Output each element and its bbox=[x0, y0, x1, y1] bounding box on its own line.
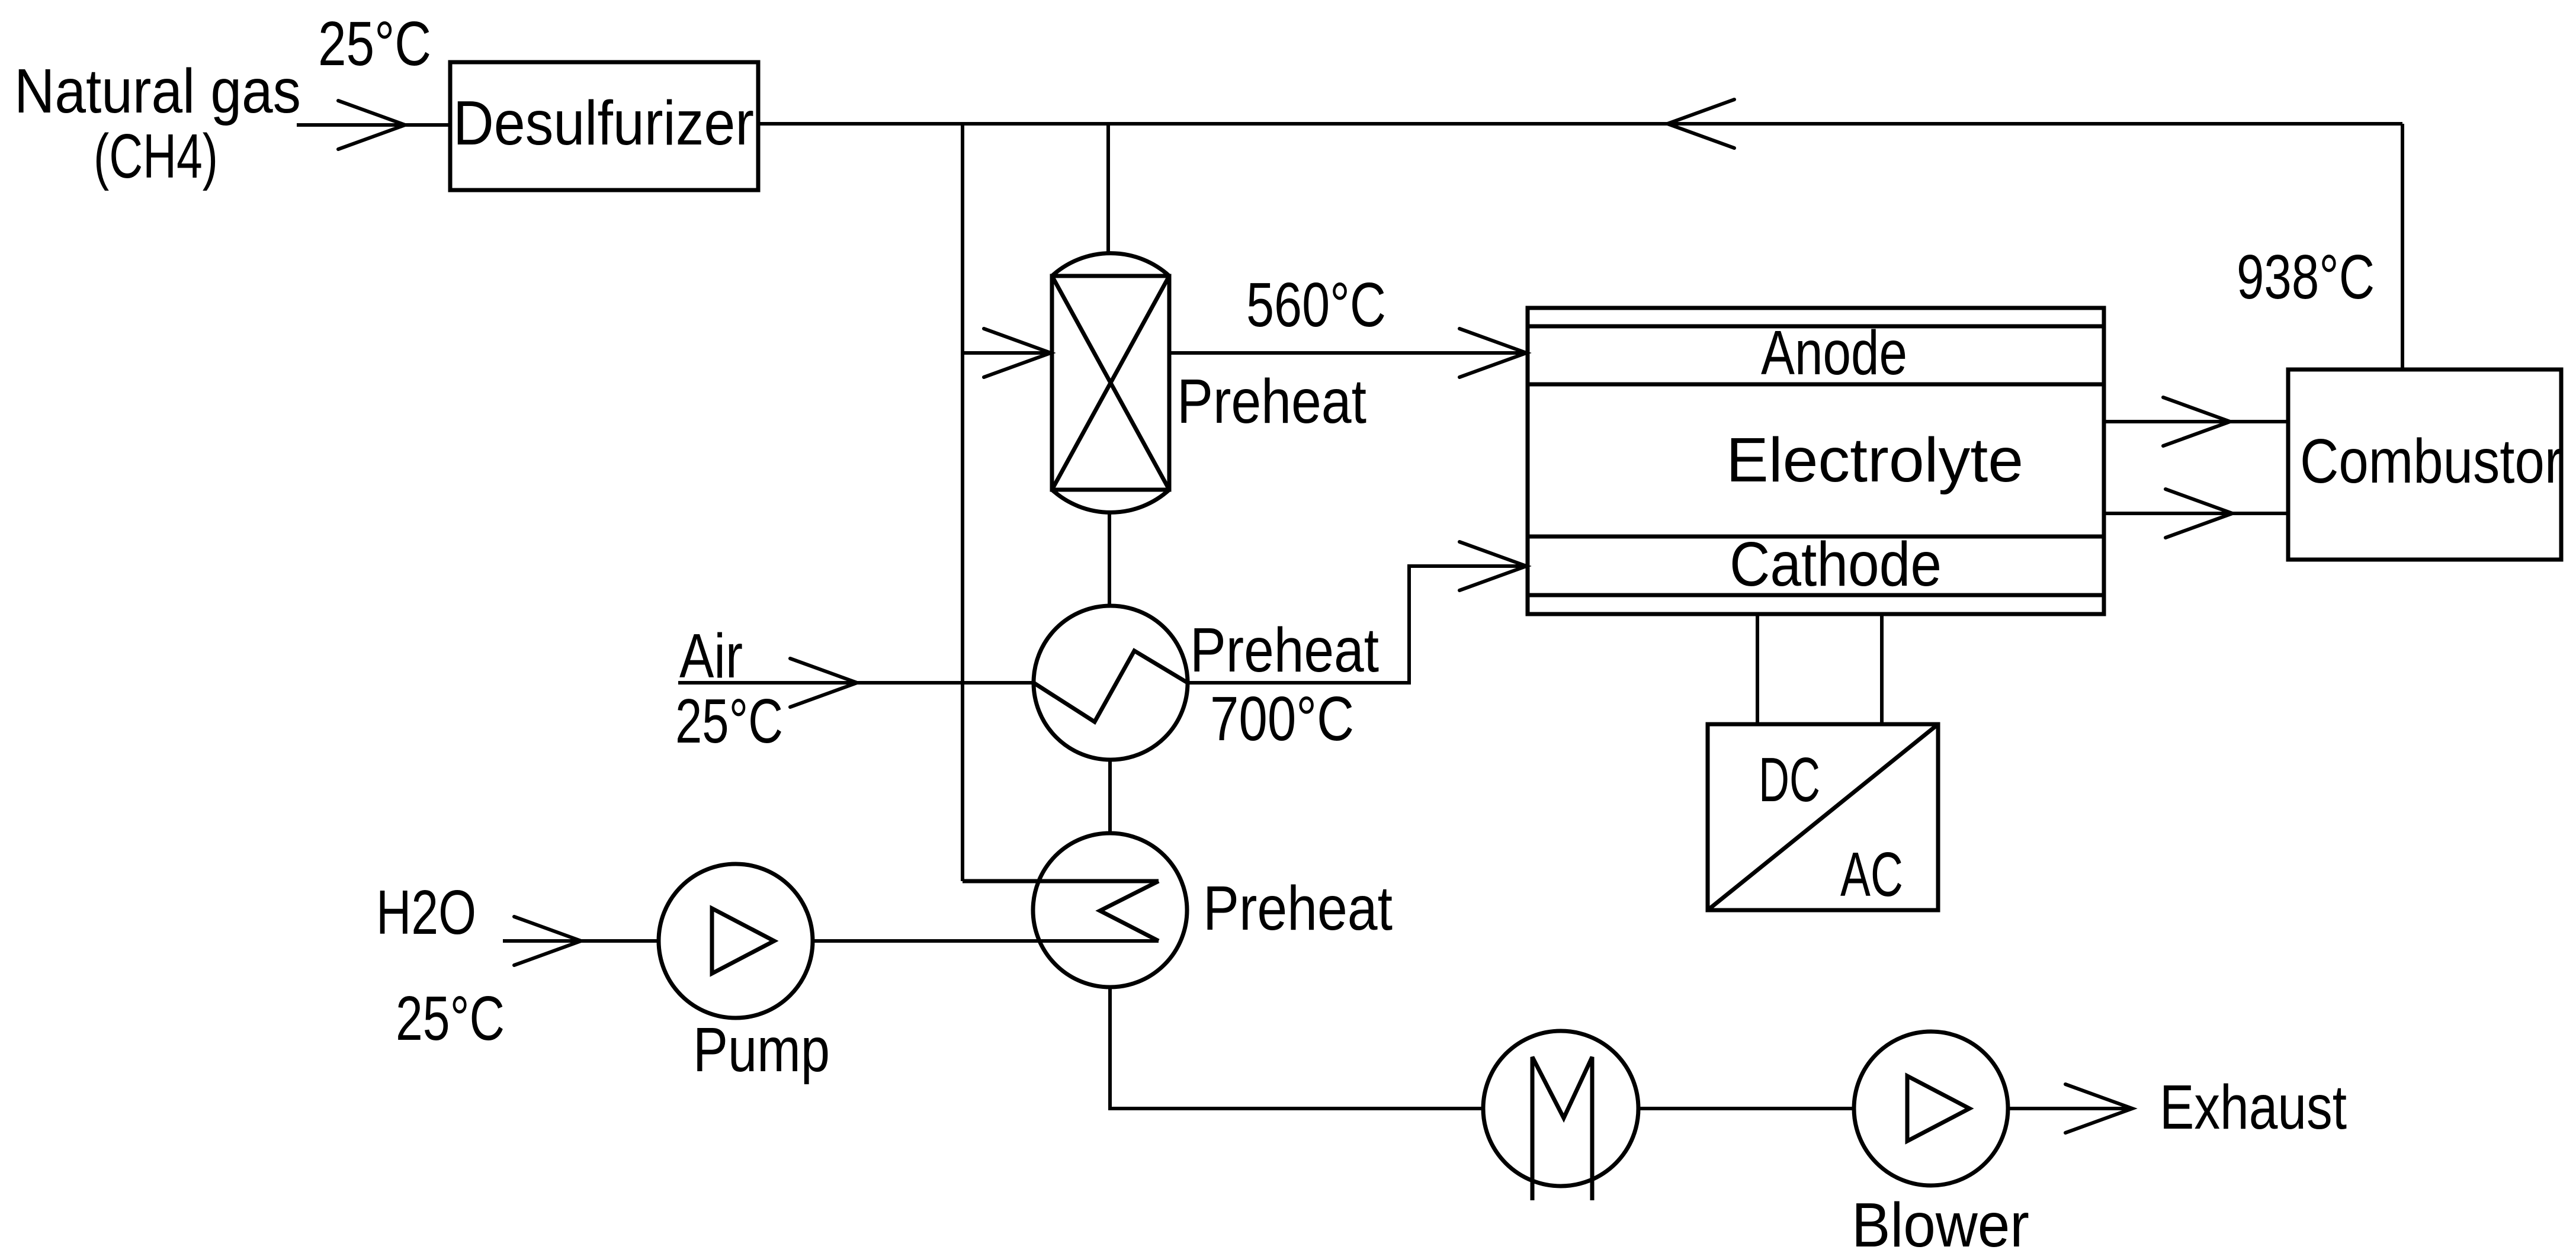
fuel preheater vessel bottom dome bbox=[1052, 490, 1169, 512]
svg-text:938°C: 938°C bbox=[2237, 242, 2375, 312]
wire branch down into vessel top bbox=[1106, 124, 1110, 255]
water preheater flag top line bbox=[963, 879, 1159, 883]
wire vessel outlet 560C to anode bbox=[1169, 351, 1528, 355]
arrow combustor return (pointing left) bbox=[1667, 99, 1734, 148]
fuel cell cathode top line bbox=[1528, 535, 2104, 539]
desulfurizer box bbox=[450, 62, 758, 190]
arrow exhaust bbox=[2065, 1084, 2132, 1133]
DC/AC converter box bbox=[1708, 724, 1938, 910]
blower circle bbox=[1854, 1032, 2008, 1185]
svg-text:Anode: Anode bbox=[1761, 318, 1907, 388]
arrow cathode inlet bbox=[1459, 542, 1526, 590]
pump circle bbox=[659, 864, 813, 1018]
wire blower outlet exhaust bbox=[2008, 1107, 2132, 1110]
DC/AC converter diagonal bbox=[1708, 724, 1938, 910]
svg-text:Cathode: Cathode bbox=[1730, 529, 1942, 599]
svg-text:Natural gas: Natural gas bbox=[14, 56, 301, 126]
svg-text:25°C: 25°C bbox=[675, 686, 783, 756]
wire pump outlet to water preheater bbox=[813, 939, 1159, 943]
arrow H2O inlet bbox=[514, 917, 581, 965]
blower triangle bbox=[1907, 1076, 1969, 1141]
fuel preheater vessel top dome bbox=[1052, 253, 1169, 276]
fuel cell inner line (top strip) bbox=[1528, 325, 2104, 329]
wire condenser to blower bbox=[1638, 1107, 1854, 1110]
svg-text:H2O: H2O bbox=[376, 878, 476, 947]
svg-text:Exhaust: Exhaust bbox=[2160, 1072, 2347, 1142]
svg-text:Preheat: Preheat bbox=[1177, 367, 1366, 436]
condenser M symbol bbox=[1532, 1057, 1592, 1200]
wire natural gas inlet bbox=[297, 123, 450, 127]
wire vessel bottom to air preheater bbox=[1108, 512, 1111, 607]
arrow natural gas inlet bbox=[338, 101, 405, 149]
svg-text:Desulfurizer: Desulfurizer bbox=[453, 88, 754, 158]
svg-text:Preheat: Preheat bbox=[1190, 615, 1379, 685]
svg-text:25°C: 25°C bbox=[318, 9, 431, 79]
wire fuel cell to DC/AC converter (right lead) bbox=[1880, 614, 1884, 724]
air preheater zigzag bbox=[1034, 651, 1188, 722]
arrow air inlet bbox=[790, 658, 857, 707]
svg-text:AC: AC bbox=[1840, 840, 1903, 910]
wire H2O inlet bbox=[503, 939, 659, 943]
svg-text:Air: Air bbox=[679, 621, 743, 691]
wire vessel inlet bbox=[963, 351, 1052, 355]
wire cathode outlet to combustor bbox=[2104, 512, 2288, 515]
wire combustor top drop bbox=[2401, 124, 2404, 370]
fuel preheater vessel X diagonal 1 bbox=[1052, 276, 1169, 490]
wire water preheater bottom to condenser bbox=[1110, 987, 1483, 1109]
svg-text:700°C: 700°C bbox=[1210, 684, 1354, 754]
fuel preheater vessel X diagonal 2 bbox=[1052, 276, 1169, 490]
wire anode outlet to combustor bbox=[2104, 420, 2288, 423]
svg-text:Electrolyte: Electrolyte bbox=[1726, 425, 2023, 495]
water preheater flag chevron bbox=[1100, 881, 1159, 941]
svg-text:Blower: Blower bbox=[1852, 1190, 2029, 1253]
svg-text:DC: DC bbox=[1759, 745, 1820, 815]
svg-text:Pump: Pump bbox=[693, 1015, 830, 1085]
svg-text:(CH4): (CH4) bbox=[94, 121, 218, 191]
arrow cathode outlet bbox=[2166, 489, 2232, 538]
svg-text:560°C: 560°C bbox=[1246, 270, 1386, 340]
condenser circle bbox=[1483, 1031, 1638, 1186]
wire desulfurizer outlet / combustor return (top run) bbox=[758, 122, 2402, 126]
svg-text:Preheat: Preheat bbox=[1203, 873, 1393, 943]
wire between preheaters bbox=[1108, 760, 1112, 833]
wire air inlet bbox=[678, 681, 1034, 685]
wire branch down at x=1625 bbox=[961, 124, 964, 881]
water preheater circle bbox=[1033, 833, 1187, 987]
fuel cell anode bottom line bbox=[1528, 383, 2104, 387]
air preheater circle bbox=[1034, 606, 1188, 760]
combustor box bbox=[2288, 370, 2561, 560]
arrow anode inlet bbox=[1459, 329, 1526, 377]
wire fuel cell to DC/AC converter (left lead) bbox=[1756, 614, 1759, 724]
pump triangle bbox=[712, 908, 774, 974]
fuel cell outer box bbox=[1528, 308, 2104, 614]
arrow anode outlet bbox=[2163, 397, 2230, 446]
fuel preheater vessel body bbox=[1052, 276, 1169, 490]
svg-text:25°C: 25°C bbox=[396, 984, 505, 1053]
fuel cell inner line (bottom strip) bbox=[1528, 593, 2104, 597]
arrow vessel inlet bbox=[984, 329, 1051, 377]
wire air preheater outlet to cathode bbox=[1188, 566, 1528, 683]
svg-text:Combustor: Combustor bbox=[2300, 426, 2562, 496]
